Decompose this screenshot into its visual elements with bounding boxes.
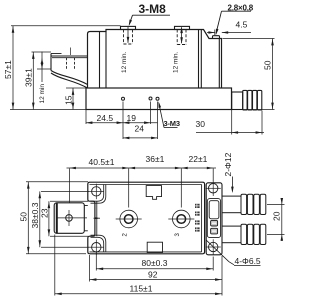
connector slot	[207, 199, 220, 238]
bracket hole centerline	[70, 48, 72, 56]
hose barb (elevation)	[232, 90, 262, 110]
manifold plate	[206, 183, 222, 255]
svg-text:2: 2	[123, 233, 129, 237]
top recess rectangle with notch	[146, 186, 161, 200]
svg-text:12 min.: 12 min.	[121, 51, 128, 73]
svg-text:24.5: 24.5	[97, 113, 114, 123]
svg-text:4.5: 4.5	[236, 20, 248, 30]
base front 3-M3 holes	[122, 97, 160, 100]
left mounting bracket (elevation)	[51, 54, 88, 89]
bottom recess rectangle	[147, 242, 162, 252]
svg-text:115±1: 115±1	[130, 284, 153, 294]
svg-text:19: 19	[127, 113, 137, 123]
svg-text:3-M3: 3-M3	[164, 119, 180, 128]
bottom dim 80±0.3	[96, 253, 213, 271]
base plate	[86, 88, 232, 110]
label 4-phi6.5 leader	[206, 240, 260, 265]
svg-text:50: 50	[19, 212, 29, 222]
terminal boss 1	[121, 26, 136, 29]
dimension 57±1	[11, 26, 121, 110]
svg-text:40.5±1: 40.5±1	[89, 157, 115, 167]
bottom dim 115±1	[55, 235, 222, 296]
bracket hidden hole (dashed)	[67, 58, 75, 69]
bottom dim 92	[90, 255, 223, 296]
base bottom extension line	[10, 109, 86, 111]
plan inner ridge	[90, 185, 202, 252]
left bracket (plan)	[54, 203, 88, 234]
body inner vertical lines	[100, 30, 220, 88]
svg-text:23: 23	[39, 208, 49, 218]
label 3-M3 with leader	[159, 103, 178, 128]
dim 20 (barb spacing)	[267, 198, 285, 241]
svg-text:2-Φ12: 2-Φ12	[223, 152, 233, 176]
label 2.8x0.8 with leader	[216, 11, 251, 33]
svg-text:36±1: 36±1	[146, 154, 165, 164]
terminal boss 2	[175, 26, 190, 29]
depth arrow hole 2	[181, 27, 183, 43]
svg-text:3-M8: 3-M8	[139, 2, 167, 16]
dimension 30 (barb length)	[196, 110, 264, 135]
terminal 1 (plan)	[116, 210, 142, 228]
svg-text:12 min.: 12 min.	[173, 51, 180, 73]
svg-text:50: 50	[263, 60, 273, 70]
hose barb plan lower	[222, 224, 266, 244]
svg-text:30: 30	[196, 119, 206, 129]
svg-text:80±0.3: 80±0.3	[142, 258, 168, 268]
right mounting hole bottom	[206, 239, 221, 254]
plan body outline	[88, 182, 205, 254]
dimension 15 (base height)	[66, 88, 86, 110]
svg-text:57±1: 57±1	[3, 60, 13, 79]
dimension 50 (right height)	[223, 39, 275, 110]
right mounting hole top	[206, 181, 221, 196]
svg-text:20: 20	[272, 211, 282, 221]
svg-text:4-Φ6.5: 4-Φ6.5	[235, 256, 261, 266]
svg-text:22±1: 22±1	[189, 154, 208, 164]
terminal mark 1 (small arrow)	[94, 217, 101, 219]
depth arrow hole 1	[127, 27, 129, 43]
hidden M8 hole 2 (dashed)	[177, 30, 186, 45]
hidden M8 hole 1 (dashed)	[124, 30, 133, 45]
left dim 38±0.3	[40, 191, 89, 247]
dimension 39±1	[32, 52, 52, 110]
dimension 12 min (bracket)	[37, 52, 51, 83]
svg-text:15: 15	[64, 95, 74, 105]
svg-text:92: 92	[148, 270, 158, 280]
svg-text:39±1: 39±1	[23, 68, 33, 87]
left dim 23	[49, 201, 88, 236]
svg-text:2.8×0.8: 2.8×0.8	[228, 4, 254, 13]
left corner mounting hole bottom	[89, 240, 104, 256]
svg-text:24: 24	[135, 124, 145, 134]
hose barb plan upper	[222, 194, 266, 214]
top-left ear ridge	[91, 185, 106, 204]
body outline	[88, 30, 222, 89]
label 2-phi12 leader	[231, 177, 233, 192]
faston tab 2.8x0.8 on shelf	[213, 36, 220, 39]
svg-text:3: 3	[175, 233, 181, 237]
left dim 50	[26, 182, 88, 254]
dimension 24.5 / 19 line	[86, 102, 158, 140]
left corner mounting hole top	[89, 184, 104, 200]
dimension 4.5 (tab)	[207, 30, 251, 36]
top dim chain 40.5 / 36 / 22	[67, 168, 217, 208]
terminal 2 (plan)	[168, 210, 194, 228]
bracket hole (plan)	[57, 210, 88, 226]
tiny marking glyphs column	[195, 204, 200, 232]
label 3-M8 with leader	[129, 15, 170, 24]
bottom-left ear ridge	[91, 235, 106, 252]
svg-text:12 min: 12 min	[39, 84, 46, 104]
